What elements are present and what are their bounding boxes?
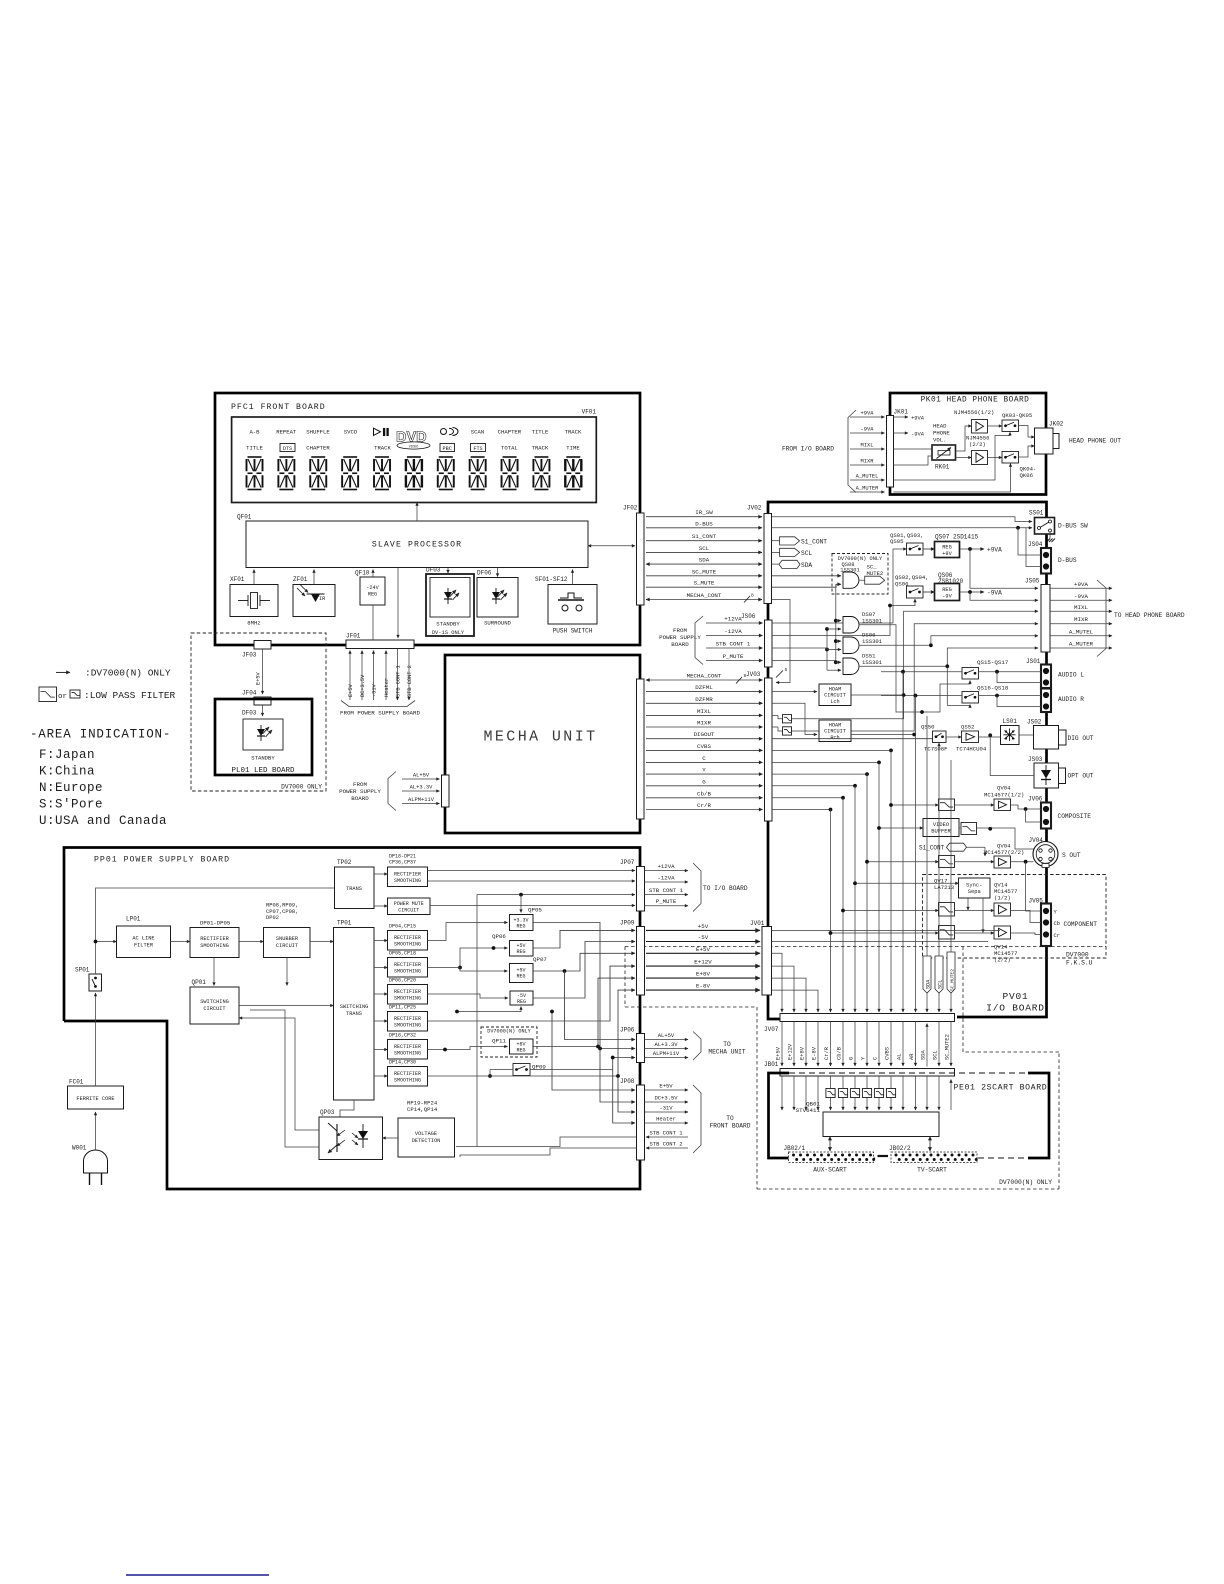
- svg-text:NJM4556(1/2): NJM4556(1/2): [954, 409, 994, 416]
- wire rectifier to snubber: [239, 941, 264, 943]
- svg-text:E+5V: E+5V: [775, 1046, 781, 1060]
- LED DF03 on PL01: [243, 719, 283, 762]
- svg-text:-9VA: -9VA: [987, 590, 1002, 597]
- wire C mecha to JV03: [646, 755, 763, 763]
- svg-text:HEAD PHONE OUT: HEAD PHONE OUT: [1069, 438, 1121, 445]
- VFD 16-segment digit 3: [310, 457, 326, 490]
- wire chroma to S OUT: [977, 827, 1034, 849]
- svg-text:HOAM: HOAM: [829, 686, 841, 692]
- label TO I/O BOARD: [703, 885, 748, 892]
- wire CVBS from JV03 with column: [772, 749, 893, 1013]
- svg-text:S:S'Pore: S:S'Pore: [39, 798, 103, 812]
- wire video buffer to LPF: [959, 827, 961, 829]
- svg-text:AUDIO R: AUDIO R: [1058, 696, 1084, 703]
- svg-text:or: or: [58, 693, 67, 701]
- VFD DTS box: [280, 444, 295, 452]
- svg-text:JB02/1: JB02/1: [784, 1145, 806, 1152]
- svg-text:E+12V: E+12V: [694, 959, 712, 966]
- wire E+12V rail to JV07: [772, 966, 795, 1012]
- wire rect1 down to QP01: [213, 958, 215, 986]
- svg-text:TITLE: TITLE: [532, 429, 549, 436]
- svg-text:RECTIFIER: RECTIFIER: [394, 1044, 421, 1050]
- svg-text:STANDBY: STANDBY: [436, 621, 460, 628]
- VFD 16-segment digit 10: [533, 457, 549, 490]
- svg-text:JV07: JV07: [764, 1026, 779, 1033]
- wire QB01 to AUX-SCART: [829, 1137, 831, 1152]
- block HOAM CIRCUIT Rch: [819, 720, 851, 742]
- svg-text:SC_MUTE2: SC_MUTE2: [944, 1034, 950, 1060]
- wire QS01 to REG9: [923, 548, 935, 550]
- buffer QV04 MC14577 1/2: [984, 785, 1024, 811]
- svg-text:SHUFFLE: SHUFFLE: [306, 429, 330, 436]
- svg-text:STB CONT 1: STB CONT 1: [649, 1130, 683, 1137]
- label TO MECHA UNIT: [708, 1041, 745, 1056]
- wire +9VA inside PK01: [894, 415, 925, 421]
- svg-text:DV7000 ONLY: DV7000 ONLY: [281, 784, 322, 791]
- regulator QS07 2SD1415 REG +9V: [935, 534, 979, 558]
- svg-text:CHAPTER: CHAPTER: [498, 429, 522, 436]
- svg-text:VIDEO: VIDEO: [409, 444, 419, 448]
- svg-text:Y: Y: [702, 767, 706, 774]
- wire audio R into QS16: [881, 694, 962, 698]
- svg-text:+9VA: +9VA: [911, 415, 925, 421]
- svg-text:QS50: QS50: [921, 724, 935, 731]
- svg-text:DP01-DP05: DP01-DP05: [200, 920, 230, 927]
- wire -9VA inside PK01: [894, 431, 925, 437]
- op-amp NJM4556 1/2: [954, 409, 994, 433]
- svg-text:LP01: LP01: [126, 916, 141, 923]
- svg-text:QS06: QS06: [895, 581, 908, 588]
- label FROM POWER SUPPLY BOARD mecha: [339, 781, 381, 802]
- wire AR column: [915, 696, 917, 1013]
- block rectifier smoothing DP18-DP21: [388, 854, 428, 887]
- wire Cb/B from JV03 with column: [772, 796, 845, 1012]
- wire C from JV03 with column: [772, 761, 881, 1013]
- switch QS16 QS18: [962, 684, 1009, 703]
- svg-text:REG: REG: [517, 999, 526, 1005]
- wire AL column: [902, 672, 904, 1012]
- wire snubber down to QP01: [286, 958, 288, 986]
- wire DS07 output control: [859, 625, 923, 712]
- plug W001: [72, 1145, 108, 1186]
- connector JF03: [242, 641, 271, 659]
- svg-text:MECHA_CONT: MECHA_CONT: [687, 592, 722, 599]
- svg-text:SCL: SCL: [699, 545, 710, 552]
- svg-text:AL: AL: [896, 1054, 902, 1060]
- VFD 16-segment digit 4: [342, 457, 358, 490]
- svg-text:E+5V: E+5V: [348, 683, 354, 697]
- svg-text:POWER SUPPLY: POWER SUPPLY: [659, 634, 701, 641]
- svg-text:SMOOTHING: SMOOTHING: [394, 878, 421, 884]
- ground symbol SS01: [1047, 532, 1056, 542]
- wire QS52 to LS01: [979, 733, 1001, 737]
- wire b7 to E-8V row: [428, 990, 636, 1078]
- svg-text:DF03: DF03: [242, 710, 257, 717]
- svg-text:8MHz: 8MHz: [247, 620, 260, 627]
- wire snubber to TP01: [310, 941, 334, 943]
- wire DIGOUT to QS50: [772, 738, 933, 740]
- board outline PK01 HEAD PHONE BOARD: [890, 393, 1046, 495]
- VFD 16-segment digit 6: [406, 457, 422, 490]
- svg-text:SWITCHING: SWITCHING: [200, 999, 229, 1005]
- wire Y to S OUT: [1011, 860, 1034, 864]
- svg-text:+12VA: +12VA: [724, 616, 742, 623]
- wire processor to JF01 second: [397, 568, 399, 639]
- svg-text:Cr: Cr: [1054, 933, 1060, 939]
- wire Heater row: [613, 1070, 635, 1124]
- wire QP06 input: [458, 946, 507, 969]
- wire processor to DF06: [497, 568, 499, 577]
- wire LPF Cr to buffer: [955, 932, 995, 934]
- svg-text:MECHA UNIT: MECHA UNIT: [483, 729, 597, 746]
- svg-text:RECTIFIER: RECTIFIER: [394, 935, 421, 941]
- wire SCL JF02 to JV02: [646, 545, 762, 553]
- wire QS50 control: [938, 743, 940, 748]
- svg-text:TO: TO: [726, 1115, 734, 1122]
- svg-text:JS06: JS06: [741, 613, 756, 620]
- wire op-amp1 to switch1: [988, 425, 1003, 427]
- svg-text:PE01 2SCART BOARD: PE01 2SCART BOARD: [954, 1084, 1048, 1093]
- VFD FTS box: [471, 444, 486, 452]
- VFD mode labels: [246, 429, 582, 452]
- svg-text:STB CONT 2: STB CONT 2: [649, 1141, 682, 1148]
- svg-text:JS05: JS05: [1025, 578, 1040, 585]
- wire QP01 to TP01: [239, 1005, 334, 1007]
- net flag S1_CONT: [772, 537, 828, 546]
- footer line: [126, 1574, 269, 1576]
- svg-text:-9VA: -9VA: [861, 427, 875, 433]
- svg-text:Heater: Heater: [384, 678, 390, 697]
- wire G from JV03 with column: [772, 784, 857, 1012]
- block rectifier smoothing DP11,CP25: [388, 1004, 428, 1031]
- svg-text:STB CONT 2: STB CONT 2: [407, 665, 413, 697]
- wire QS16 to AUDIO R: [979, 694, 1042, 698]
- svg-text:AL+5V: AL+5V: [413, 773, 430, 779]
- regulator QS06 2SB1020 REG -9V: [935, 572, 964, 601]
- wire -5V JP09 to JV01: [646, 934, 760, 942]
- svg-text:SCL: SCL: [801, 550, 812, 557]
- svg-text:S1_CONT: S1_CONT: [919, 844, 945, 851]
- svg-text:QP05: QP05: [528, 907, 542, 914]
- connector mecha AL power bar: [442, 775, 450, 807]
- svg-text:REG: REG: [516, 949, 525, 955]
- svg-text:DC+3.5V: DC+3.5V: [360, 674, 366, 697]
- VFD DVD logo: [396, 430, 430, 450]
- dash between scarts: [878, 1155, 889, 1157]
- headphone jack JK02: [1035, 421, 1064, 455]
- switch QS15 QS17: [962, 659, 1009, 679]
- svg-text:SF01-SF12: SF01-SF12: [535, 576, 568, 583]
- board outline PFC1 FRONT BOARD: [215, 393, 640, 645]
- connector JB01: [764, 1061, 955, 1076]
- wire QP03 feedback to QP01 b: [239, 1010, 319, 1147]
- svg-text:+9VA: +9VA: [987, 547, 1002, 554]
- svg-text:SLAVE PROCESSOR: SLAVE PROCESSOR: [372, 541, 462, 550]
- svg-text:U:USA and Canada: U:USA and Canada: [39, 814, 167, 828]
- wire -12VA to QS02: [772, 599, 915, 636]
- svg-text:A_MUTEL: A_MUTEL: [856, 474, 879, 480]
- label MECHA UNIT: [483, 729, 597, 746]
- svg-text:MECHA_CONT: MECHA_CONT: [687, 673, 722, 680]
- svg-text:SCAN: SCAN: [471, 429, 484, 436]
- svg-text:TRANS: TRANS: [346, 1011, 362, 1017]
- block VIDEO BUFFER: [923, 819, 959, 837]
- wire +12VA to QS01: [772, 549, 907, 623]
- block rectifier smoothing DP04,CP15: [388, 923, 428, 950]
- wire D-BUS drop to JS04: [1018, 528, 1041, 567]
- switch SP01: [75, 967, 102, 992]
- svg-text:QK03-QK05: QK03-QK05: [1002, 412, 1032, 419]
- bus slash JS06: [776, 667, 788, 678]
- label TO HEAD PHONE BOARD: [1114, 612, 1185, 619]
- optocoupler QP03: [319, 1109, 383, 1160]
- block HOAM CIRCUIT Lch: [819, 684, 851, 706]
- svg-text:QP07: QP07: [533, 956, 547, 963]
- label TO FRONT BOARD: [710, 1115, 751, 1130]
- wire -5V into IO board: [772, 941, 989, 943]
- bracket JP07: [693, 863, 701, 912]
- block LP01 AC LINE FILTER: [117, 916, 171, 958]
- svg-text:FROM: FROM: [353, 781, 367, 788]
- connector JV02: [747, 505, 772, 604]
- svg-text:-9VA: -9VA: [911, 431, 925, 437]
- svg-text:SMOOTHING: SMOOTHING: [394, 1050, 421, 1056]
- wire JF03 to JF04: [256, 649, 263, 694]
- svg-text:DF06: DF06: [477, 570, 492, 577]
- block rectifier smoothing DP14,CP30: [388, 1059, 428, 1086]
- svg-text:STB CONT 1: STB CONT 1: [649, 887, 684, 894]
- mute switch QK03 QK05: [1002, 412, 1032, 432]
- wire QS15 to AUDIO L: [979, 670, 1042, 674]
- wire P_MUTE to gates: [772, 660, 836, 662]
- svg-text:C: C: [702, 755, 706, 762]
- svg-text:-24V: -24V: [366, 585, 379, 591]
- wire +3.3V top feed: [520, 895, 522, 913]
- wire MIXR to JS05: [792, 624, 1039, 731]
- VFD play pause icon: [374, 428, 389, 436]
- svg-text:MIXL: MIXL: [1074, 604, 1088, 611]
- svg-text:TC7S08F: TC7S08F: [924, 746, 948, 753]
- wire STB CONT 1 to gates: [772, 648, 827, 650]
- svg-text:AL+3.3V: AL+3.3V: [654, 1041, 678, 1048]
- svg-text:JV04: JV04: [1029, 837, 1044, 844]
- gate DS51 1SS301: [843, 653, 883, 675]
- svg-text:E+12V: E+12V: [787, 1043, 793, 1060]
- svg-text:AR: AR: [909, 1053, 915, 1060]
- connector JS04 D-BUS: [1028, 541, 1077, 574]
- svg-text:Sync-: Sync-: [966, 883, 982, 889]
- svg-text:DP04,CP15: DP04,CP15: [389, 923, 416, 929]
- svg-text:BOARD: BOARD: [351, 795, 369, 802]
- svg-text:MIXR: MIXR: [861, 459, 875, 465]
- label DV7000 FKSU: [1066, 952, 1093, 967]
- connector JP08: [620, 1078, 645, 1160]
- wire b5 to E+12V row: [428, 966, 636, 1021]
- wire C branch to video buffer: [877, 826, 923, 830]
- wire E+5V front row: [550, 1010, 635, 1090]
- low pass filter MIXR: [772, 727, 792, 735]
- legend low pass filter: [39, 687, 176, 702]
- connector JB02/1 AUX-SCART: [784, 1145, 876, 1174]
- svg-text:SCL: SCL: [938, 980, 944, 989]
- wire E+8V JP09 to JV01: [646, 971, 760, 979]
- svg-text:JF02: JF02: [623, 505, 638, 512]
- svg-text:QS16-QS18: QS16-QS18: [977, 684, 1009, 691]
- regulator QP05 +3.3V: [510, 907, 543, 931]
- svg-text:FTS: FTS: [473, 446, 482, 452]
- connector JV03: [746, 671, 772, 821]
- svg-text:DF03: DF03: [426, 567, 441, 574]
- svg-text:Cb: Cb: [1054, 921, 1060, 927]
- wire Y mecha to JV03: [646, 767, 763, 775]
- wire DS51 output A_MUTER: [859, 648, 1039, 668]
- svg-text:5: 5: [785, 667, 788, 673]
- low pass filter chroma: [961, 823, 977, 835]
- svg-text:MECHA UNIT: MECHA UNIT: [708, 1049, 745, 1056]
- svg-text:(2/2): (2/2): [969, 441, 986, 448]
- svg-text:D-BUS: D-BUS: [1058, 557, 1077, 564]
- connector JS01 AUDIO R: [1041, 689, 1084, 713]
- svg-text:QV04: QV04: [997, 785, 1011, 792]
- svg-text:JS02: JS02: [1027, 719, 1042, 726]
- svg-text:-31V: -31V: [372, 683, 378, 697]
- svg-text:MIXL: MIXL: [861, 443, 874, 449]
- wire to OPT OUT: [990, 735, 1034, 775]
- wire TP02 to rect b1: [374, 873, 388, 875]
- wire QS02 to REG-9: [923, 591, 935, 593]
- board outline MECHA UNIT: [445, 655, 640, 833]
- wire S_MUTE JF02 to JV02: [646, 580, 762, 588]
- bracket JS05 output: [1097, 580, 1106, 657]
- svg-text:SP01: SP01: [75, 967, 90, 974]
- connector JS03 OPT OUT: [1028, 756, 1094, 788]
- wire Cb buffer to JV05: [1011, 911, 1042, 923]
- svg-text:JV06: JV06: [1028, 796, 1043, 803]
- svg-text:+9V: +9V: [942, 551, 952, 557]
- svg-text:QP06: QP06: [492, 933, 506, 940]
- wires FROM I/O BOARD into JK01: [850, 411, 885, 492]
- svg-text:CIRCUIT: CIRCUIT: [276, 943, 298, 949]
- svg-text:FRONT BOARD: FRONT BOARD: [710, 1123, 751, 1130]
- svg-text:TIME: TIME: [566, 445, 580, 452]
- wire RK01 to op-amp 2: [956, 457, 972, 459]
- wire S_MUTE to QS08: [772, 584, 842, 587]
- svg-text:ALPM+11V: ALPM+11V: [653, 1050, 680, 1057]
- VFD 16-segment digit 9: [502, 457, 518, 490]
- svg-text:G: G: [702, 778, 706, 785]
- wire E+12V JP09 to JV01: [646, 959, 760, 967]
- wire E+8V rail to JV07: [772, 978, 807, 1012]
- wire QV04 to JV06: [1011, 805, 1042, 811]
- dashed box DV7000(N) ONLY QS08: [832, 554, 888, 595]
- svg-text:JP06: JP06: [620, 1027, 635, 1034]
- svg-text:E-8V: E-8V: [811, 1046, 817, 1060]
- wire HOAM Rch output: [851, 733, 916, 737]
- wire TP01 to QP03: [340, 1100, 354, 1117]
- svg-text:QF01: QF01: [237, 514, 252, 521]
- wire E+5V rail to JV07: [772, 953, 783, 1012]
- crystal XF01: [230, 576, 278, 627]
- JF01 bracket: [341, 701, 415, 707]
- VFD display VF01: [232, 409, 597, 503]
- wire G mecha to JV03: [646, 778, 763, 786]
- svg-text:QP01: QP01: [192, 979, 207, 986]
- svg-text:(2/2): (2/2): [994, 957, 1011, 964]
- svg-text:SMOOTHING: SMOOTHING: [394, 1022, 421, 1028]
- svg-text:BUFFER: BUFFER: [931, 829, 951, 835]
- svg-text:RECTIFIER: RECTIFIER: [394, 1016, 421, 1022]
- push switch SF01-SF12: [535, 576, 597, 635]
- wire TP01 tap 967.5: [374, 967, 388, 969]
- wire TP01 tap 1049.5: [374, 1049, 388, 1051]
- wire b1 out top to JP07: [428, 870, 636, 872]
- svg-text:IR: IR: [319, 596, 325, 602]
- wire LS01 to JS02: [1019, 734, 1034, 736]
- svg-text:FERRITE CORE: FERRITE CORE: [76, 1096, 114, 1102]
- svg-text:Cr/R: Cr/R: [824, 1046, 830, 1060]
- svg-text:-31V: -31V: [659, 1105, 673, 1112]
- switch QP09: [513, 1064, 546, 1076]
- net flag SC_MUTE2: [859, 563, 885, 584]
- wire A_MUTEL control: [894, 432, 1011, 480]
- bracket JP08: [693, 1085, 701, 1153]
- LED DF06 SURROUND: [477, 570, 518, 627]
- wire E-8V JP09 to JV01: [646, 983, 760, 991]
- wires JP08 to front board: [645, 1083, 689, 1148]
- svg-text:E+5V: E+5V: [659, 1083, 673, 1090]
- svg-text:ALPM+11V: ALPM+11V: [408, 797, 435, 803]
- wire gate feed vertical A: [834, 584, 841, 664]
- wire REG +9V output +9VA: [960, 547, 1003, 554]
- svg-text:JS04: JS04: [1028, 541, 1043, 548]
- svg-text:SDA: SDA: [801, 562, 812, 569]
- label PL01 LED BOARD: [231, 767, 295, 775]
- wire power mute to JP07: [430, 905, 635, 907]
- block QP01 SWITCHING CIRCUIT: [190, 979, 239, 1024]
- wire SC_MUTE JF02 to JV02: [646, 568, 762, 576]
- svg-text:C: C: [872, 1057, 878, 1060]
- VFD angle icon: [441, 428, 459, 436]
- wire ferrite to SP01: [95, 993, 97, 1086]
- wire QP09 input: [488, 1070, 513, 1078]
- wire MIXR to RK01: [894, 456, 933, 465]
- svg-text:JP07: JP07: [620, 859, 635, 866]
- low pass filters before QB01: [826, 1076, 896, 1110]
- svg-text:JP09: JP09: [620, 920, 635, 927]
- wire DZFML mecha to JV03: [646, 684, 763, 692]
- svg-text:CVBS: CVBS: [697, 743, 711, 750]
- svg-text:1SS301: 1SS301: [862, 638, 883, 645]
- wire switch1 to JK02: [1019, 426, 1035, 438]
- wire -5V REG to row: [533, 942, 635, 999]
- wire MECHA_CONT JV02 to JV03: [772, 600, 791, 683]
- wire sync sepa down2: [982, 898, 984, 933]
- svg-text:CP14,QP14: CP14,QP14: [407, 1106, 438, 1113]
- svg-text:TP01: TP01: [337, 920, 352, 927]
- switch QS50 TC7S08F: [921, 724, 948, 753]
- svg-text:REG: REG: [942, 544, 952, 550]
- svg-text:DP16,CP32: DP16,CP32: [389, 1032, 416, 1038]
- svg-text:E-8V: E-8V: [696, 983, 710, 990]
- svg-text:REG: REG: [516, 1047, 525, 1053]
- svg-text:Heater: Heater: [656, 1116, 676, 1123]
- buffer QV14 MC14577 2/2 component: [994, 926, 1018, 964]
- JF01 signal stubs E+5V DC+3.5V -31V Heater STB CONT 1 STB CONT 2: [348, 649, 413, 701]
- svg-text:MC14577(1/2): MC14577(1/2): [984, 792, 1024, 799]
- buffer QS52 TC74HCU04: [956, 724, 987, 753]
- wire STB CONT1 return: [477, 1137, 637, 1147]
- low pass filter Cr: [939, 926, 955, 940]
